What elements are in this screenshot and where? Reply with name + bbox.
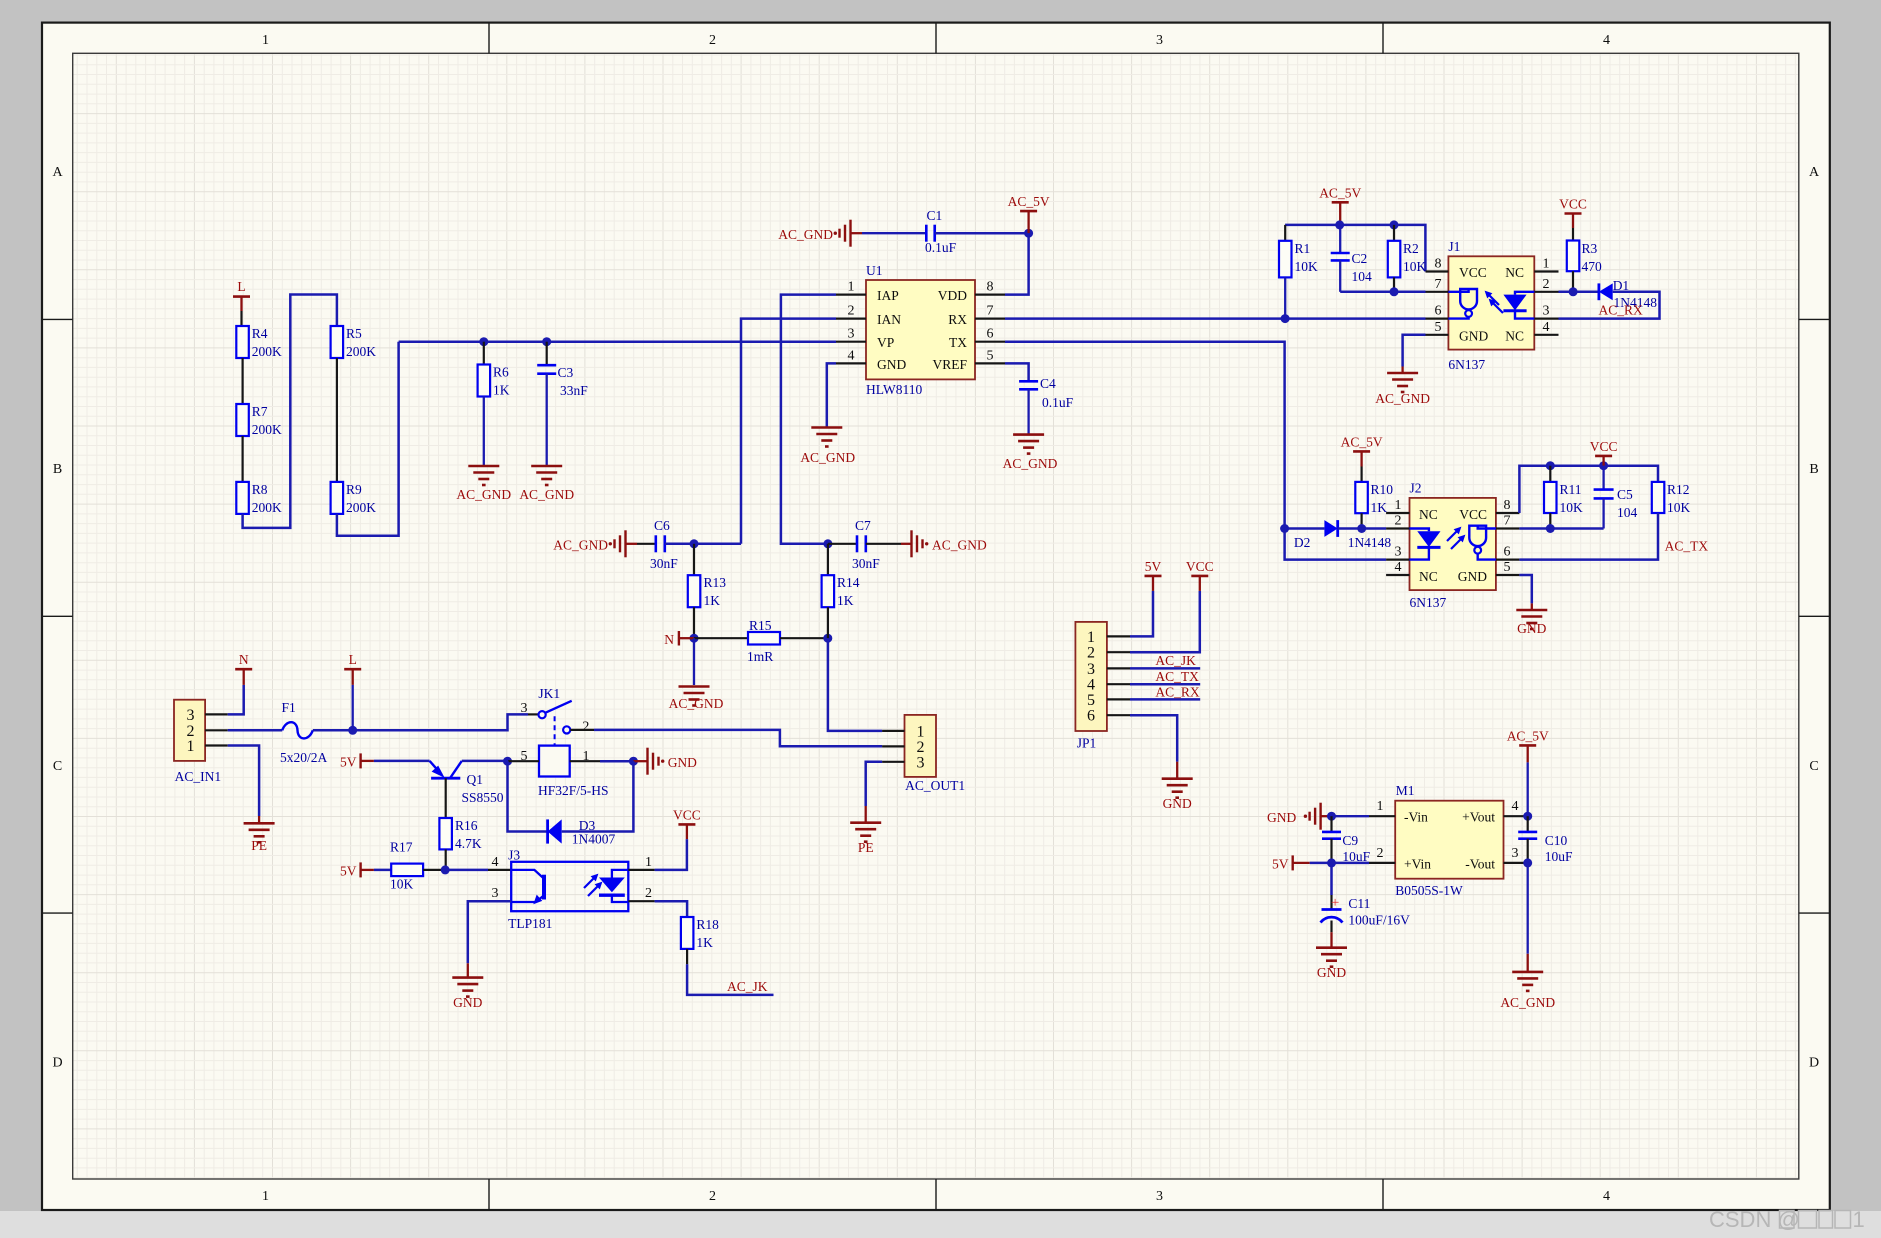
svg-text:AC_TX: AC_TX bbox=[1155, 669, 1199, 684]
svg-text:2: 2 bbox=[1087, 645, 1095, 662]
wire bbox=[562, 761, 634, 831]
svg-text:1K: 1K bbox=[1371, 500, 1388, 515]
wire bbox=[546, 374, 548, 465]
svg-text:N: N bbox=[239, 652, 249, 667]
svg-text:Q1: Q1 bbox=[467, 772, 484, 787]
svg-text:200K: 200K bbox=[252, 344, 282, 359]
svg-text:3: 3 bbox=[1395, 545, 1402, 560]
wire bbox=[1005, 363, 1029, 381]
wire bbox=[374, 869, 391, 872]
wire bbox=[665, 543, 741, 546]
wire bbox=[827, 607, 829, 638]
svg-text:1: 1 bbox=[1087, 629, 1095, 646]
svg-text:U1: U1 bbox=[866, 263, 883, 278]
power port VCC (J1) bbox=[1559, 197, 1587, 229]
capacitor C1 bbox=[925, 208, 957, 255]
dc-dc module M1 B0505S-1W bbox=[1369, 783, 1528, 898]
wire AC_RX loop bbox=[1559, 292, 1660, 319]
svg-text:HF32F/5-HS: HF32F/5-HS bbox=[538, 783, 609, 798]
connector AC_IN1 bbox=[174, 700, 228, 784]
capacitor C11 100uF/16V bbox=[1321, 863, 1411, 928]
node bbox=[1280, 524, 1289, 533]
wire bbox=[508, 761, 548, 831]
svg-text:VCC: VCC bbox=[1186, 559, 1214, 574]
svg-text:104: 104 bbox=[1617, 505, 1638, 520]
svg-text:6: 6 bbox=[1435, 304, 1442, 319]
svg-text:470: 470 bbox=[1582, 259, 1603, 274]
wire bbox=[626, 543, 656, 545]
svg-text:GND: GND bbox=[1517, 621, 1546, 636]
power ground AC_GND (C6) bbox=[553, 530, 625, 557]
wire bbox=[1559, 291, 1599, 294]
svg-text:C4: C4 bbox=[1040, 376, 1056, 391]
diode D3 1N4007 bbox=[548, 818, 616, 847]
svg-text:AC_GND: AC_GND bbox=[1375, 391, 1430, 406]
svg-text:7: 7 bbox=[987, 304, 994, 319]
wire bbox=[462, 760, 508, 763]
ground GND (J3) bbox=[452, 977, 483, 1010]
svg-text:GND: GND bbox=[877, 357, 906, 372]
svg-text:R18: R18 bbox=[696, 917, 719, 932]
wire VDD bbox=[1005, 233, 1029, 294]
node bbox=[1523, 858, 1532, 867]
power port AC_5V (U1) bbox=[1008, 194, 1050, 233]
relay coil JK1 HF32F/5-HS bbox=[521, 746, 609, 798]
power port 5V (M1) bbox=[1272, 855, 1310, 871]
svg-text:3: 3 bbox=[1087, 661, 1095, 678]
svg-text:R10: R10 bbox=[1371, 482, 1394, 497]
svg-text:R15: R15 bbox=[749, 618, 772, 633]
svg-text:C: C bbox=[53, 759, 62, 774]
svg-text:6N137: 6N137 bbox=[1448, 357, 1485, 372]
svg-text:5V: 5V bbox=[340, 755, 357, 770]
svg-text:3: 3 bbox=[1512, 846, 1519, 861]
svg-text:GND: GND bbox=[1458, 569, 1487, 584]
svg-text:4: 4 bbox=[1395, 560, 1402, 575]
svg-text:1: 1 bbox=[262, 1189, 269, 1204]
svg-text:+Vin: +Vin bbox=[1404, 856, 1431, 871]
svg-text:4: 4 bbox=[1512, 799, 1519, 814]
wire bbox=[1519, 575, 1531, 609]
svg-text:3: 3 bbox=[1156, 1189, 1163, 1204]
svg-text:R17: R17 bbox=[390, 840, 413, 855]
svg-text:VCC: VCC bbox=[1590, 439, 1618, 454]
svg-text:3: 3 bbox=[1156, 33, 1163, 48]
svg-text:B0505S-1W: B0505S-1W bbox=[1395, 883, 1463, 898]
wire bbox=[570, 760, 600, 762]
wire bbox=[240, 311, 242, 326]
svg-text:AC_5V: AC_5V bbox=[1341, 435, 1383, 450]
svg-text:3: 3 bbox=[917, 754, 925, 771]
svg-text:AC_RX: AC_RX bbox=[1599, 303, 1644, 318]
wire bbox=[687, 964, 773, 995]
capacitor C3 bbox=[537, 365, 588, 398]
wire TX net bbox=[1005, 342, 1386, 560]
svg-text:M1: M1 bbox=[1396, 783, 1415, 798]
svg-text:C10: C10 bbox=[1545, 833, 1568, 848]
svg-text:D: D bbox=[52, 1056, 62, 1071]
svg-text:C11: C11 bbox=[1348, 896, 1370, 911]
svg-text:AC_GND: AC_GND bbox=[1003, 456, 1058, 471]
diode D2 1N4148 bbox=[1294, 520, 1392, 550]
svg-text:J3: J3 bbox=[508, 848, 520, 863]
svg-text:JP1: JP1 bbox=[1077, 736, 1097, 751]
wire bbox=[1527, 762, 1529, 816]
resistor R15 bbox=[747, 618, 780, 664]
power port VCC (J3) bbox=[673, 808, 701, 825]
svg-text:C: C bbox=[1809, 759, 1818, 774]
ground AC_GND (M1) bbox=[1500, 971, 1555, 1010]
svg-text:8: 8 bbox=[987, 280, 994, 295]
wire bbox=[1130, 576, 1200, 652]
node bbox=[479, 337, 488, 346]
wire bbox=[228, 729, 283, 732]
node bbox=[629, 757, 638, 766]
ground PE bbox=[244, 822, 275, 853]
wire bbox=[828, 638, 882, 731]
svg-text:10K: 10K bbox=[1560, 500, 1584, 515]
wire bbox=[655, 824, 687, 870]
wire bbox=[1519, 466, 1658, 513]
svg-text:2: 2 bbox=[848, 304, 855, 319]
svg-text:2: 2 bbox=[709, 1189, 716, 1204]
svg-text:AC_GND: AC_GND bbox=[800, 450, 855, 465]
svg-text:AC_GND: AC_GND bbox=[1500, 995, 1555, 1010]
svg-text:AC_JK: AC_JK bbox=[727, 979, 768, 994]
wire bbox=[242, 358, 244, 404]
net label AC_JK (R18) bbox=[727, 979, 768, 994]
wire bbox=[1393, 277, 1395, 291]
wire bbox=[508, 760, 540, 762]
svg-text:+: + bbox=[1331, 895, 1339, 911]
svg-text:L: L bbox=[237, 279, 245, 294]
svg-text:1K: 1K bbox=[493, 383, 510, 398]
svg-text:AC_IN1: AC_IN1 bbox=[175, 769, 222, 784]
svg-text:30nF: 30nF bbox=[650, 556, 678, 571]
svg-text:2: 2 bbox=[1377, 846, 1384, 861]
svg-text:200K: 200K bbox=[346, 500, 376, 515]
svg-text:VCC: VCC bbox=[1459, 507, 1487, 522]
svg-text:1K: 1K bbox=[696, 935, 713, 950]
svg-text:R3: R3 bbox=[1582, 241, 1598, 256]
svg-text:0.1uF: 0.1uF bbox=[1042, 395, 1074, 410]
wire bbox=[313, 729, 353, 732]
svg-text:8: 8 bbox=[1435, 257, 1442, 272]
svg-text:5: 5 bbox=[1087, 692, 1095, 709]
svg-text:HLW8110: HLW8110 bbox=[866, 382, 922, 397]
wire AC_TX bbox=[1519, 513, 1658, 560]
wire bbox=[445, 869, 488, 872]
resistor R11 bbox=[1544, 466, 1583, 515]
svg-text:NC: NC bbox=[1505, 265, 1524, 280]
power port L (divider) bbox=[233, 279, 250, 311]
svg-text:104: 104 bbox=[1352, 269, 1373, 284]
svg-text:3: 3 bbox=[848, 327, 855, 342]
capacitor C7 bbox=[852, 518, 880, 571]
svg-text:R7: R7 bbox=[252, 404, 268, 419]
resistor R3 bbox=[1567, 228, 1602, 274]
svg-text:5V: 5V bbox=[340, 864, 357, 879]
svg-text:5: 5 bbox=[987, 348, 994, 363]
wire bbox=[935, 232, 1029, 235]
svg-text:6: 6 bbox=[1504, 545, 1511, 560]
svg-text:GND: GND bbox=[1163, 796, 1192, 811]
svg-text:1: 1 bbox=[1377, 799, 1384, 814]
svg-text:6N137: 6N137 bbox=[1410, 595, 1447, 610]
svg-text:GND: GND bbox=[1267, 810, 1296, 825]
svg-text:AC_TX: AC_TX bbox=[1665, 539, 1709, 554]
svg-text:R5: R5 bbox=[346, 326, 362, 341]
svg-text:D2: D2 bbox=[1294, 535, 1311, 550]
capacitor C4 bbox=[1019, 376, 1074, 410]
wire AC_TX stub bbox=[1130, 683, 1200, 686]
ground AC_GND (C4) bbox=[1003, 434, 1058, 471]
svg-text:J2: J2 bbox=[1410, 481, 1422, 496]
svg-text:R9: R9 bbox=[346, 482, 362, 497]
svg-text:AC_GND: AC_GND bbox=[456, 487, 511, 502]
wire bbox=[352, 685, 354, 730]
svg-text:AC_5V: AC_5V bbox=[1507, 729, 1549, 744]
svg-text:R8: R8 bbox=[252, 482, 268, 497]
power port 5V (JP1) bbox=[1145, 559, 1162, 576]
svg-text:10K: 10K bbox=[1295, 259, 1319, 274]
svg-text:RX: RX bbox=[948, 312, 967, 327]
wire bbox=[468, 901, 511, 976]
wire bbox=[594, 730, 882, 746]
transistor Q1 SS8550 bbox=[430, 761, 504, 805]
svg-text:VP: VP bbox=[877, 335, 894, 350]
power port 5V (R17) bbox=[340, 862, 374, 878]
svg-text:1: 1 bbox=[848, 280, 855, 295]
svg-text:3: 3 bbox=[521, 701, 528, 716]
optocoupler J2 6N137 bbox=[1386, 481, 1519, 611]
relay contact JK1 bbox=[521, 686, 590, 745]
node bbox=[542, 337, 551, 346]
svg-text:C2: C2 bbox=[1352, 251, 1368, 266]
wire bbox=[600, 760, 633, 763]
wire bbox=[780, 637, 828, 639]
power port 5V (Q1) bbox=[340, 753, 374, 769]
node bbox=[503, 757, 512, 766]
svg-text:C5: C5 bbox=[1617, 487, 1633, 502]
svg-text:F1: F1 bbox=[282, 700, 296, 715]
node bbox=[348, 726, 357, 735]
wire bbox=[353, 714, 539, 730]
svg-text:1: 1 bbox=[645, 855, 652, 870]
svg-text:-Vin: -Vin bbox=[1404, 810, 1428, 825]
wire bbox=[693, 638, 695, 685]
svg-text:R13: R13 bbox=[704, 575, 727, 590]
svg-text:3: 3 bbox=[1543, 304, 1550, 319]
svg-text:C7: C7 bbox=[855, 518, 871, 533]
node bbox=[441, 865, 450, 874]
svg-text:10K: 10K bbox=[1667, 500, 1691, 515]
svg-text:200K: 200K bbox=[252, 500, 282, 515]
svg-text:GND: GND bbox=[1459, 328, 1488, 343]
svg-text:R12: R12 bbox=[1667, 482, 1690, 497]
svg-text:AC_GND: AC_GND bbox=[932, 538, 987, 553]
wire bbox=[1360, 513, 1362, 528]
node bbox=[1335, 220, 1344, 229]
svg-text:5V: 5V bbox=[1145, 559, 1162, 574]
svg-text:1: 1 bbox=[1543, 257, 1550, 272]
wire bbox=[655, 901, 688, 917]
svg-text:AC_GND: AC_GND bbox=[519, 487, 574, 502]
optocoupler J1 6N137 bbox=[1426, 239, 1559, 372]
wire bbox=[488, 869, 511, 871]
resistor R8 bbox=[236, 482, 282, 515]
capacitor C2 bbox=[1331, 225, 1372, 292]
node bbox=[823, 539, 832, 548]
node bbox=[1024, 229, 1033, 238]
svg-text:AC_GND: AC_GND bbox=[669, 696, 724, 711]
svg-text:GND: GND bbox=[1317, 965, 1346, 980]
svg-text:1N4007: 1N4007 bbox=[572, 832, 616, 847]
wire bbox=[546, 342, 548, 366]
svg-text:2: 2 bbox=[645, 886, 652, 901]
svg-text:2: 2 bbox=[582, 720, 589, 735]
svg-text:6: 6 bbox=[1087, 708, 1095, 725]
svg-text:10K: 10K bbox=[1403, 259, 1427, 274]
ground AC_GND (U1) bbox=[800, 427, 855, 466]
wire bbox=[483, 397, 485, 466]
svg-text:2: 2 bbox=[1543, 277, 1550, 292]
node bbox=[1327, 812, 1336, 821]
svg-text:PE: PE bbox=[251, 838, 267, 853]
svg-text:100uF/16V: 100uF/16V bbox=[1348, 913, 1410, 928]
power port VCC (J2) bbox=[1590, 439, 1618, 466]
power port L (AC_IN1) bbox=[344, 652, 361, 685]
net label AC_RX (JP1) bbox=[1155, 684, 1200, 699]
power ground GND (M1) bbox=[1267, 803, 1321, 830]
svg-text:3: 3 bbox=[187, 707, 195, 724]
wire bbox=[1338, 527, 1386, 530]
svg-text:200K: 200K bbox=[252, 422, 282, 437]
power port N (sense) bbox=[664, 631, 694, 647]
wire bbox=[1340, 291, 1425, 294]
wire bbox=[1130, 715, 1177, 778]
capacitor C5 bbox=[1594, 466, 1638, 529]
wire bbox=[423, 869, 445, 871]
resistor R12 bbox=[1652, 482, 1691, 515]
wire bbox=[1403, 335, 1426, 372]
node bbox=[1546, 461, 1555, 470]
wire bbox=[1285, 527, 1325, 530]
wire bbox=[228, 746, 259, 823]
wire bbox=[694, 637, 748, 639]
power ground GND (relay) bbox=[648, 748, 698, 775]
node bbox=[1569, 287, 1578, 296]
wire RX net bbox=[1005, 317, 1426, 320]
optocoupler J3 TLP181 bbox=[492, 848, 655, 932]
node bbox=[1357, 524, 1366, 533]
svg-text:AC_5V: AC_5V bbox=[1008, 194, 1050, 209]
svg-text:VCC: VCC bbox=[673, 808, 701, 823]
wire bbox=[1527, 863, 1529, 971]
ground GND (J2) bbox=[1516, 609, 1547, 636]
node bbox=[1281, 314, 1290, 323]
resistor R2 bbox=[1388, 225, 1427, 278]
ground AC_GND (R6) bbox=[456, 465, 511, 502]
ground AC_GND (N) bbox=[669, 686, 724, 712]
svg-text:1K: 1K bbox=[704, 593, 721, 608]
wire bbox=[337, 342, 399, 536]
svg-text:5x20/2A: 5x20/2A bbox=[280, 750, 328, 765]
resistor R4 bbox=[236, 326, 282, 359]
resistor R14 bbox=[822, 575, 860, 608]
svg-text:R6: R6 bbox=[493, 365, 509, 380]
svg-text:8: 8 bbox=[1504, 498, 1511, 513]
svg-text:NC: NC bbox=[1419, 507, 1438, 522]
power port AC_5V (J2) bbox=[1341, 435, 1383, 467]
resistor R10 bbox=[1355, 467, 1393, 516]
capacitor C9 bbox=[1322, 816, 1371, 864]
connector AC_OUT1 bbox=[882, 715, 965, 793]
diode D1 1N4148 bbox=[1599, 278, 1657, 310]
wire bbox=[336, 358, 338, 482]
resistor R13 bbox=[688, 575, 726, 608]
resistor R17 bbox=[390, 840, 423, 892]
svg-text:A: A bbox=[52, 165, 63, 180]
svg-text:AC_5V: AC_5V bbox=[1319, 186, 1361, 201]
node bbox=[1327, 858, 1336, 867]
net label AC_TX (JP1) bbox=[1155, 669, 1199, 684]
power port N (AC_IN1) bbox=[235, 652, 252, 669]
svg-text:1K: 1K bbox=[837, 593, 854, 608]
svg-text:R4: R4 bbox=[252, 326, 268, 341]
svg-text:7: 7 bbox=[1435, 277, 1442, 292]
wire VP net bbox=[399, 340, 836, 343]
svg-text:200K: 200K bbox=[346, 344, 376, 359]
resistor R7 bbox=[236, 404, 282, 437]
svg-text:L: L bbox=[349, 652, 357, 667]
svg-text:2: 2 bbox=[1395, 514, 1402, 529]
svg-text:-Vout: -Vout bbox=[1465, 856, 1495, 871]
svg-text:0.1uF: 0.1uF bbox=[925, 240, 957, 255]
svg-text:4: 4 bbox=[492, 855, 499, 870]
wire bbox=[693, 544, 695, 575]
wire bbox=[827, 363, 836, 426]
svg-text:R1: R1 bbox=[1295, 241, 1311, 256]
wire bbox=[828, 543, 857, 545]
wire bbox=[1027, 389, 1029, 433]
svg-text:R16: R16 bbox=[455, 818, 478, 833]
svg-text:4: 4 bbox=[1603, 1189, 1610, 1204]
wire bbox=[866, 762, 882, 822]
wire bbox=[851, 232, 927, 234]
svg-text:J1: J1 bbox=[1448, 239, 1460, 254]
capacitor C10 bbox=[1518, 816, 1573, 864]
power ground AC_GND (C7) bbox=[912, 530, 988, 557]
svg-text:7: 7 bbox=[1504, 514, 1511, 529]
svg-text:4.7K: 4.7K bbox=[455, 836, 482, 851]
svg-text:AC_RX: AC_RX bbox=[1155, 684, 1200, 699]
wire bbox=[228, 669, 244, 714]
svg-text:1N4148: 1N4148 bbox=[1348, 535, 1392, 550]
wire bbox=[693, 607, 695, 638]
resistor R1 bbox=[1279, 225, 1318, 278]
svg-text:5: 5 bbox=[1435, 320, 1442, 335]
svg-text:NC: NC bbox=[1419, 569, 1438, 584]
net label AC_TX bbox=[1665, 539, 1709, 554]
wire bbox=[1310, 862, 1369, 865]
svg-text:B: B bbox=[53, 462, 62, 477]
power port VCC (JP1) bbox=[1186, 559, 1214, 576]
svg-text:10uF: 10uF bbox=[1545, 849, 1573, 864]
svg-text:N: N bbox=[664, 632, 674, 647]
wire bbox=[1130, 576, 1153, 637]
svg-text:C6: C6 bbox=[654, 518, 670, 533]
